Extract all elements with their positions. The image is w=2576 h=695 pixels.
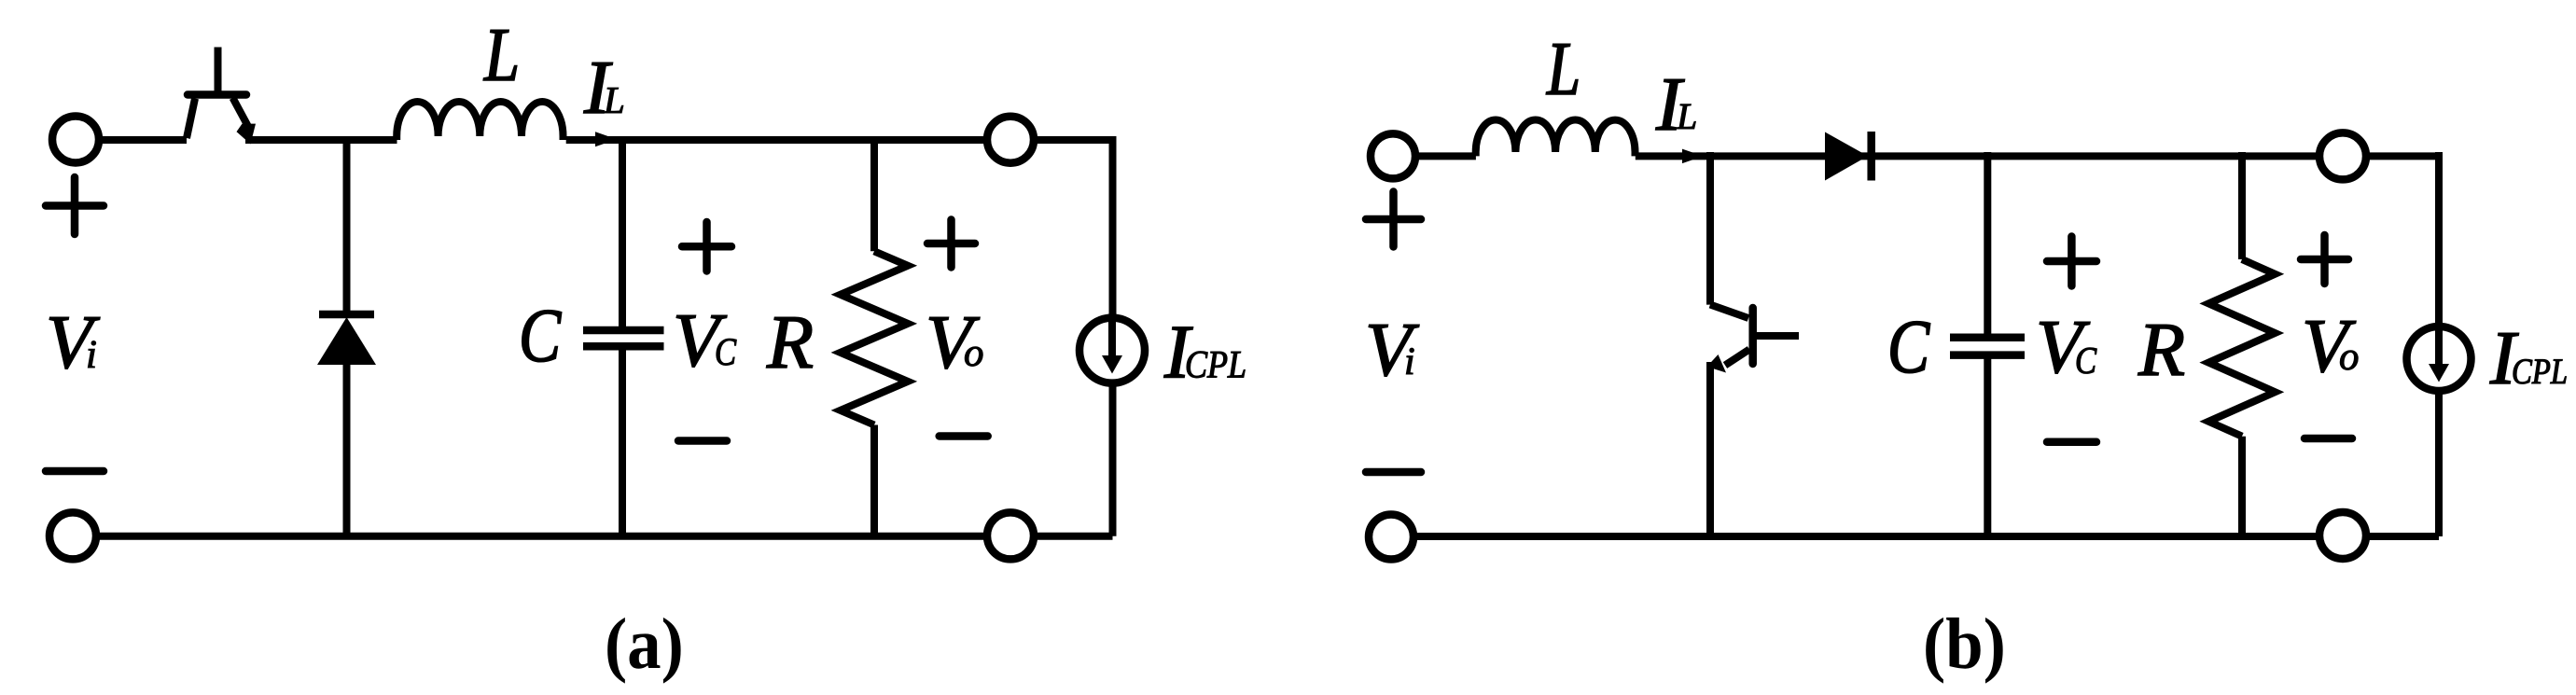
label IL subscript L (a) xyxy=(604,88,623,113)
caption (b) xyxy=(1926,618,2002,684)
diode D1 bottom lead xyxy=(343,363,351,536)
label IL (b) xyxy=(1656,79,1685,130)
inductor current arrow IL (a) xyxy=(595,132,617,146)
caption (a) xyxy=(607,618,680,684)
label Vi (a) xyxy=(49,317,100,368)
wire bottom rail a xyxy=(73,533,1113,540)
wire top input a xyxy=(93,136,187,144)
label C (b) xyxy=(1891,322,1930,373)
minus sign input (b) xyxy=(1366,468,1421,477)
label Vo (b) xyxy=(2305,321,2356,372)
minus sign input (a) xyxy=(46,467,104,476)
terminal input top (a) xyxy=(52,117,99,163)
label Vo (a) xyxy=(929,317,980,368)
diode D1 top lead xyxy=(343,136,351,318)
label ICPL subscript CPL (a) xyxy=(1187,352,1245,378)
label VC (b) xyxy=(2040,322,2090,373)
capacitor C (b) bottom lead xyxy=(1984,355,1991,536)
resistor R (a) zigzag xyxy=(841,251,908,424)
transistor Q1 gate lead xyxy=(215,48,222,95)
capacitor C (b) top plate xyxy=(1950,334,2025,342)
label C (a) xyxy=(522,311,562,362)
current source ICPL (a) circle xyxy=(1079,318,1145,383)
wire top right b xyxy=(1636,152,2439,160)
current source ICPL (a) arrow shaft xyxy=(1108,314,1116,357)
wire right branch a xyxy=(1109,136,1117,536)
label VC (a) xyxy=(676,315,727,367)
current source ICPL (b) arrow head xyxy=(2429,364,2449,382)
terminal output top (a) xyxy=(987,117,1034,163)
resistor R (b) bottom lead xyxy=(2238,437,2246,536)
transistor Q2 lower slant xyxy=(1725,350,1749,366)
diode D2 cathode bar xyxy=(1867,132,1875,181)
wire top input b xyxy=(1413,152,1476,160)
capacitor C (b) bottom plate xyxy=(1950,351,2025,359)
label Vo subscript o (b) xyxy=(2340,351,2358,370)
wire right branch b xyxy=(2435,152,2443,536)
transistor Q1 emitter arrow xyxy=(237,124,257,145)
label Vi subscript i (a) xyxy=(88,341,95,368)
transistor Q2 upper slant xyxy=(1710,305,1748,319)
plus sign input (b) xyxy=(1366,192,1421,247)
label Vi (b) xyxy=(1369,325,1419,376)
resistor R (a) top lead xyxy=(870,136,878,251)
wire top right a xyxy=(566,136,1113,144)
terminal output top (b) xyxy=(2319,132,2366,179)
capacitor C (a) top plate xyxy=(583,327,664,335)
label Vo subscript o (a) xyxy=(965,347,982,367)
current source ICPL (a) arrow head xyxy=(1102,355,1122,374)
terminal input top (b) xyxy=(1371,133,1415,178)
label VC subscript C (b) xyxy=(2077,348,2096,374)
inductor L (a) xyxy=(397,102,563,140)
transistor Q1 left lead xyxy=(187,99,195,139)
transistor Q1 base bar xyxy=(188,90,246,99)
wire bottom rail b xyxy=(1393,533,2439,540)
terminal output bottom (a) xyxy=(987,512,1034,559)
resistor R (b) zigzag xyxy=(2208,259,2275,437)
minus sign VC (a) xyxy=(678,437,727,445)
wire top mid a xyxy=(245,136,397,144)
diode D1 triangle xyxy=(317,317,376,365)
plus sign VC (b) xyxy=(2047,237,2096,286)
terminal input bottom (a) xyxy=(49,512,96,559)
terminal output bottom (b) xyxy=(2319,512,2366,559)
label R (b) xyxy=(2138,325,2184,375)
plus sign Vo (b) xyxy=(2301,235,2348,284)
transistor Q1 right lead xyxy=(233,98,249,128)
diode D2 triangle xyxy=(1825,132,1868,181)
terminal input bottom (b) xyxy=(1369,515,1413,560)
capacitor C (a) bottom lead xyxy=(619,346,626,536)
transistor Q2 bottom lead xyxy=(1706,362,1714,536)
resistor R (b) top lead xyxy=(2238,152,2246,259)
capacitor C (b) top lead xyxy=(1984,152,1991,338)
capacitor C (a) top lead xyxy=(619,136,626,330)
current source ICPL (b) arrow shaft xyxy=(2435,323,2443,366)
inductor L (b) xyxy=(1476,119,1636,156)
plus sign VC (a) xyxy=(682,222,731,271)
plus sign Vo (a) xyxy=(927,220,975,268)
minus sign VC (b) xyxy=(2047,438,2096,447)
minus sign Vo (b) xyxy=(2304,435,2352,443)
label R (a) xyxy=(767,317,813,368)
label VC subscript C (a) xyxy=(717,339,736,365)
label ICPL (a) xyxy=(1164,327,1193,378)
transistor Q2 emitter arrow xyxy=(1707,354,1727,373)
plus sign input (a) xyxy=(46,177,104,234)
label Vi subscript i (b) xyxy=(1406,348,1413,374)
label IL (a) xyxy=(584,63,613,113)
diode D1 cathode bar xyxy=(319,311,374,319)
capacitor C (a) bottom plate xyxy=(583,342,664,351)
transistor Q2 base bar xyxy=(1748,308,1757,364)
label ICPL (b) xyxy=(2490,333,2519,383)
transistor Q2 top lead xyxy=(1706,152,1714,305)
inductor current arrow IL (b) xyxy=(1682,149,1704,164)
label IL subscript L (b) xyxy=(1677,104,1696,129)
minus sign Vo (a) xyxy=(940,432,988,440)
current source ICPL (b) circle xyxy=(2407,327,2472,391)
label L (b) xyxy=(1546,44,1578,94)
label ICPL subscript CPL (b) xyxy=(2513,359,2567,383)
label L (a) xyxy=(483,30,517,80)
resistor R (a) bottom lead xyxy=(870,425,878,536)
transistor Q2 gate lead xyxy=(1754,332,1799,340)
